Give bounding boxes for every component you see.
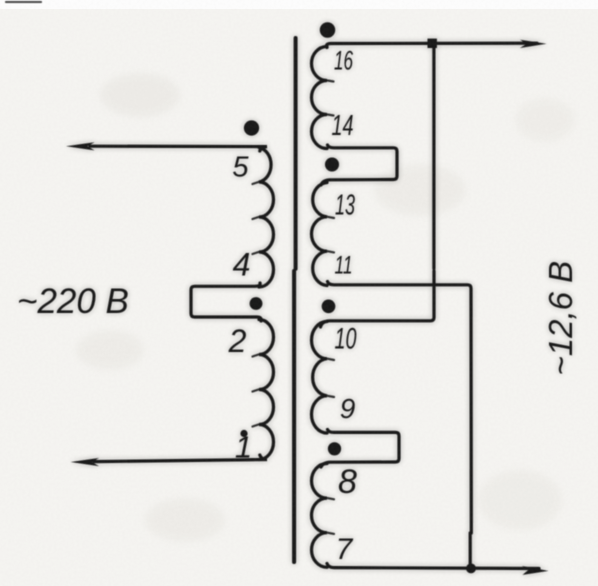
scan streak top-left [5, 1, 42, 3]
